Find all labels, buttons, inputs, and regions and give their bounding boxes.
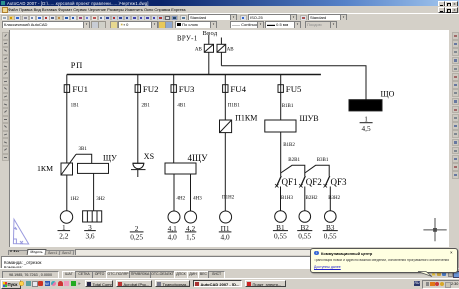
svg-text:ВРУ-1: ВРУ-1 bbox=[177, 36, 198, 43]
svg-text:FU3: FU3 bbox=[179, 84, 195, 94]
svg-text:1,5: 1,5 bbox=[186, 233, 195, 242]
svg-text:4Н2: 4Н2 bbox=[177, 196, 186, 201]
svg-text:П1КМ: П1КМ bbox=[235, 113, 257, 122]
svg-text:П1Н2: П1Н2 bbox=[222, 195, 235, 200]
svg-text:0,55: 0,55 bbox=[298, 231, 311, 240]
svg-text:1КМ: 1КМ bbox=[37, 164, 53, 173]
svg-text:QF3: QF3 bbox=[331, 177, 348, 187]
svg-text:3,6: 3,6 bbox=[85, 231, 94, 240]
svg-text:QF2: QF2 bbox=[306, 177, 322, 187]
svg-text:FU4: FU4 bbox=[230, 84, 246, 94]
svg-text:QF1: QF1 bbox=[282, 177, 298, 187]
svg-text:В2В1: В2В1 bbox=[288, 158, 300, 163]
svg-text:В1В1: В1В1 bbox=[282, 104, 294, 109]
svg-text:0,55: 0,55 bbox=[274, 231, 287, 240]
svg-text:4Н3: 4Н3 bbox=[193, 196, 202, 201]
svg-text:РП: РП bbox=[71, 61, 83, 70]
svg-text:0,25: 0,25 bbox=[130, 233, 143, 242]
svg-text:1В1: 1В1 bbox=[71, 103, 80, 108]
svg-text:4В1: 4В1 bbox=[177, 103, 186, 108]
svg-text:2В1: 2В1 bbox=[142, 103, 151, 108]
svg-text:FU5: FU5 bbox=[286, 84, 302, 94]
svg-text:ШУВ: ШУВ bbox=[300, 114, 319, 123]
svg-text:В2Н2: В2Н2 bbox=[306, 196, 318, 201]
svg-text:Ввод: Ввод bbox=[203, 30, 218, 37]
svg-text:В1Н3: В1Н3 bbox=[281, 196, 293, 201]
svg-text:В1В2: В1В2 bbox=[283, 143, 295, 148]
svg-text:3Н2: 3Н2 bbox=[96, 197, 105, 202]
svg-text:АВ: АВ bbox=[227, 48, 235, 53]
svg-text:1Н2: 1Н2 bbox=[70, 197, 79, 202]
svg-text:П1В1: П1В1 bbox=[228, 103, 240, 108]
svg-text:4,0: 4,0 bbox=[168, 233, 177, 242]
svg-text:3В1: 3В1 bbox=[79, 147, 88, 152]
svg-text:ЩО: ЩО bbox=[381, 90, 395, 99]
svg-text:1: 1 bbox=[364, 114, 368, 123]
svg-text:0,55: 0,55 bbox=[324, 231, 337, 240]
svg-text:ЩУ: ЩУ bbox=[103, 153, 117, 162]
svg-text:4,5: 4,5 bbox=[362, 124, 371, 133]
svg-text:4,0: 4,0 bbox=[221, 233, 230, 242]
svg-text:2,2: 2,2 bbox=[59, 231, 68, 240]
svg-text:FU2: FU2 bbox=[143, 84, 159, 94]
svg-text:XS: XS bbox=[144, 152, 154, 161]
svg-text:АВ: АВ bbox=[195, 48, 203, 53]
svg-text:В3В1: В3В1 bbox=[317, 158, 329, 163]
svg-text:FU1: FU1 bbox=[72, 84, 88, 94]
svg-text:4ЩУ: 4ЩУ bbox=[188, 153, 209, 163]
svg-text:В3Н2: В3Н2 bbox=[328, 196, 340, 201]
